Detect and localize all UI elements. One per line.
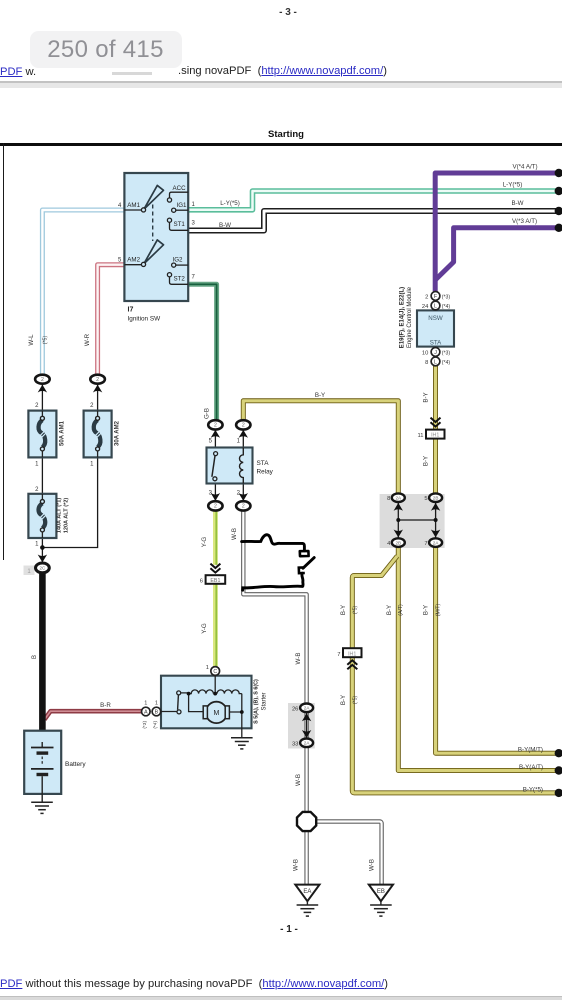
svg-text:(*5): (*5) bbox=[352, 606, 358, 615]
relay connector 2 top-right bbox=[239, 430, 248, 438]
svg-text:E19(F), E14(J), E22(L): E19(F), E14(J), E22(L) bbox=[400, 287, 406, 348]
svg-text:30A AM2: 30A AM2 bbox=[115, 420, 121, 446]
svg-text:B-Y: B-Y bbox=[315, 392, 325, 399]
connector 2A pin 8 bbox=[394, 503, 403, 511]
svg-text:2: 2 bbox=[35, 487, 39, 493]
STA relay bbox=[207, 448, 253, 484]
svg-text:3: 3 bbox=[209, 491, 213, 497]
svg-text:Starter: Starter bbox=[261, 692, 267, 710]
wire B-Y from STA relay to connector 2A bbox=[243, 401, 398, 494]
wire V(*3 A/T) purple bbox=[435, 228, 559, 280]
wire G-B from ST2 down to STA relay bbox=[189, 284, 217, 420]
wire V(*4 A/T) purple bbox=[435, 173, 559, 291]
terminal ST2 bbox=[170, 277, 189, 285]
svg-text:STA: STA bbox=[257, 460, 270, 467]
ground point EA bbox=[295, 885, 319, 902]
svg-text:M: M bbox=[213, 710, 219, 717]
svg-text:V(*3 A/T): V(*3 A/T) bbox=[512, 218, 537, 225]
svg-text:2: 2 bbox=[425, 294, 428, 300]
starter right bus and ground bbox=[230, 694, 242, 738]
starter terminal A bbox=[142, 707, 151, 716]
svg-text:W-L: W-L bbox=[28, 334, 35, 346]
svg-text:IG2: IG2 bbox=[173, 257, 184, 264]
svg-text:F: F bbox=[434, 294, 437, 300]
battery bbox=[24, 731, 61, 794]
svg-text:AM2: AM2 bbox=[127, 257, 140, 264]
ECM pin L bbox=[431, 301, 440, 310]
svg-text:B-Y: B-Y bbox=[340, 695, 347, 705]
svg-text:B-Y: B-Y bbox=[423, 605, 430, 615]
svg-text:B-Y: B-Y bbox=[386, 605, 393, 615]
wire W-B octagon to ground EA bbox=[304, 831, 308, 884]
wire B-Y from ECM STA pin down through IH1 bbox=[433, 366, 438, 494]
svg-text:EB1: EB1 bbox=[210, 578, 220, 584]
svg-text:L-Y(*5): L-Y(*5) bbox=[503, 181, 523, 188]
svg-text:V(*4 A/T): V(*4 A/T) bbox=[512, 164, 537, 171]
svg-text:50A AM1: 50A AM1 bbox=[60, 420, 66, 446]
svg-text:S 5(A), (B), S 6(C): S 5(A), (B), S 6(C) bbox=[254, 679, 260, 724]
connector block shade 2A/2B bbox=[380, 494, 445, 548]
svg-text:B-Y: B-Y bbox=[422, 392, 429, 402]
svg-text:1: 1 bbox=[144, 701, 147, 707]
wire Y-G relay to EB1 bbox=[213, 511, 218, 565]
svg-text:2: 2 bbox=[242, 504, 245, 510]
svg-text:2A: 2A bbox=[304, 706, 311, 711]
terminal ST1 bbox=[170, 222, 189, 230]
svg-text:B-Y(A/T): B-Y(A/T) bbox=[519, 764, 543, 771]
svg-text:I7: I7 bbox=[128, 307, 134, 314]
svg-text:2: 2 bbox=[96, 377, 99, 383]
svg-text:3: 3 bbox=[192, 221, 196, 227]
ECM pin F bbox=[431, 292, 440, 301]
svg-text:2: 2 bbox=[35, 403, 39, 409]
fuse 50A AM1 bbox=[28, 411, 56, 458]
svg-text:2A: 2A bbox=[433, 540, 440, 545]
svg-text:26: 26 bbox=[292, 706, 298, 712]
svg-text:Ignition SW: Ignition SW bbox=[128, 316, 162, 323]
svg-text:(A/T): (A/T) bbox=[398, 604, 404, 616]
starter motor M bbox=[206, 702, 227, 723]
svg-text:1: 1 bbox=[35, 542, 39, 548]
ground point EB bbox=[369, 885, 393, 902]
relay connector 2 bottom-right bbox=[239, 493, 248, 501]
junction IH1 pin 7 bbox=[343, 648, 362, 657]
link fuse AM2 to connector bbox=[97, 384, 99, 411]
ignition switch mechanical link dashed bbox=[152, 205, 154, 242]
svg-text:1: 1 bbox=[237, 439, 241, 445]
terminal AM2 bbox=[124, 264, 141, 266]
wire B battery cable bbox=[39, 574, 46, 743]
svg-text:1: 1 bbox=[35, 461, 39, 467]
svg-text:C: C bbox=[213, 669, 217, 675]
svg-text:ACC: ACC bbox=[173, 185, 187, 192]
svg-text:(*3): (*3) bbox=[442, 294, 451, 300]
svg-text:2A: 2A bbox=[304, 741, 311, 746]
junction IH1 pin 11 bbox=[431, 418, 441, 427]
link relay pin2 bbox=[242, 484, 244, 502]
svg-text:2: 2 bbox=[242, 423, 245, 429]
page indicator pill 250 of 415 bbox=[30, 31, 182, 68]
edge terminals bbox=[555, 169, 562, 177]
svg-text:(*5): (*5) bbox=[43, 336, 49, 345]
svg-text:ST2: ST2 bbox=[174, 276, 186, 283]
starter pull-in coil bbox=[189, 690, 214, 694]
ECM pin J bbox=[431, 348, 440, 357]
wire W-R from ignition AM2 to fuse connector bbox=[98, 265, 125, 376]
link relay pin5 bbox=[214, 430, 216, 448]
ECM pin L2 bbox=[431, 357, 440, 366]
connector 2C battery cable bbox=[38, 555, 47, 563]
fuse 140A/120A ALT bbox=[28, 494, 56, 538]
junction EB1 pin 6 bbox=[210, 564, 220, 573]
ignition switch I7 bbox=[124, 173, 188, 301]
svg-text:(*4): (*4) bbox=[442, 304, 451, 310]
svg-text:Y-G: Y-G bbox=[201, 537, 208, 548]
svg-text:AM1: AM1 bbox=[127, 202, 140, 209]
connector block 26/33 internal link bbox=[306, 712, 308, 739]
svg-text:B-Y(*5): B-Y(*5) bbox=[523, 786, 543, 793]
svg-text:2B: 2B bbox=[395, 540, 401, 545]
wire L-Y(*5) from IG1 to right edge bbox=[189, 191, 560, 210]
title Starting bbox=[250, 129, 322, 140]
starter S5/S6 bbox=[161, 676, 252, 729]
svg-text:8: 8 bbox=[387, 496, 390, 502]
svg-text:6: 6 bbox=[200, 579, 203, 585]
link relay pin3 bbox=[214, 484, 216, 502]
svg-text:L: L bbox=[434, 359, 437, 365]
junction node bbox=[40, 545, 45, 550]
relay connector 2 bottom-left bbox=[211, 493, 220, 501]
terminal AM1 bbox=[124, 209, 141, 211]
relay switch contact bbox=[214, 452, 218, 456]
starter switch contact bbox=[177, 691, 181, 695]
starter terminal B bbox=[152, 707, 161, 716]
svg-text:(*4): (*4) bbox=[442, 360, 451, 366]
novaPDF watermark top left fragment bbox=[0, 66, 36, 78]
svg-text:L-Y(*5): L-Y(*5) bbox=[220, 200, 240, 207]
page number top bbox=[270, 7, 306, 18]
wire B-Y(M/T) bottom run bbox=[436, 547, 560, 753]
svg-text:5: 5 bbox=[424, 496, 427, 502]
svg-text:120A ALT (*2): 120A ALT (*2) bbox=[64, 498, 70, 534]
relay connector 2 top-left bbox=[211, 430, 220, 438]
hand-drawn annotation scribble bbox=[242, 535, 305, 551]
ignition switch contact arm lower bbox=[144, 240, 164, 264]
svg-text:8: 8 bbox=[425, 360, 428, 366]
wire W-L from ignition AM1 to fuse connector bbox=[42, 210, 124, 375]
wire W-B octagon branch to ground EB bbox=[317, 822, 382, 885]
svg-text:Y-G: Y-G bbox=[201, 623, 208, 634]
svg-text:W-B: W-B bbox=[295, 653, 302, 665]
link fuse ALT to battery node bbox=[41, 538, 43, 563]
link fuse AM1 to fuse ALT bbox=[41, 456, 43, 494]
connector 2 (W-R) bbox=[93, 385, 102, 393]
svg-text:(*5): (*5) bbox=[352, 696, 358, 705]
svg-text:B: B bbox=[155, 709, 159, 715]
connector 2A pin 7 bbox=[431, 530, 440, 538]
starter terminal C bbox=[211, 667, 220, 676]
svg-text:B-R: B-R bbox=[100, 702, 111, 709]
starter internal wiring bbox=[214, 676, 216, 694]
svg-text:EB: EB bbox=[377, 889, 385, 895]
svg-text:Relay: Relay bbox=[257, 469, 274, 476]
svg-text:W-B: W-B bbox=[231, 528, 238, 540]
svg-text:G-B: G-B bbox=[203, 408, 210, 419]
svg-text:A: A bbox=[144, 709, 148, 715]
svg-text:B-W: B-W bbox=[511, 200, 523, 207]
svg-text:2: 2 bbox=[90, 403, 94, 409]
battery ground bbox=[31, 801, 53, 803]
svg-text:EA: EA bbox=[303, 889, 311, 895]
svg-text:L: L bbox=[434, 303, 437, 309]
svg-text:B-Y(M/T): B-Y(M/T) bbox=[518, 747, 543, 754]
svg-text:(M/T): (M/T) bbox=[435, 604, 441, 617]
svg-text:B-Y: B-Y bbox=[340, 605, 347, 615]
svg-text:W-B: W-B bbox=[369, 859, 376, 871]
title rule bbox=[0, 143, 562, 146]
svg-text:7: 7 bbox=[424, 541, 427, 547]
svg-text:2C: 2C bbox=[39, 566, 46, 571]
svg-text:J: J bbox=[434, 350, 437, 356]
svg-text:B-W: B-W bbox=[219, 222, 231, 229]
battery plates bbox=[41, 742, 43, 748]
connector 2A pin 26 bbox=[302, 713, 311, 721]
wire B-Y(A/T) bottom run bbox=[398, 547, 559, 771]
octagon splice joint bbox=[297, 812, 316, 831]
svg-text:Engine Control Module: Engine Control Module bbox=[407, 286, 413, 348]
svg-text:IG1: IG1 bbox=[177, 202, 188, 209]
svg-text:33: 33 bbox=[292, 741, 298, 747]
svg-text:11: 11 bbox=[417, 433, 423, 439]
connector 2 (W-L) bbox=[38, 385, 47, 393]
svg-text:(*3): (*3) bbox=[442, 350, 451, 356]
svg-text:B-Y: B-Y bbox=[422, 456, 429, 466]
svg-text:W-B: W-B bbox=[293, 859, 300, 871]
left page border bbox=[3, 143, 5, 560]
svg-text:W-R: W-R bbox=[84, 333, 91, 346]
terminal ACC bbox=[170, 192, 189, 198]
svg-text:10: 10 bbox=[422, 350, 428, 356]
svg-text:2B: 2B bbox=[433, 496, 439, 501]
wire W-B relay to body octagon joint bbox=[243, 511, 306, 812]
svg-text:B: B bbox=[32, 655, 38, 659]
svg-text:IH1: IH1 bbox=[431, 433, 439, 439]
wire B-W from ST1 to right edge bbox=[189, 211, 560, 231]
faded label near battery connector bbox=[24, 566, 35, 576]
connector 2B pin 4 bbox=[394, 530, 403, 538]
starter hold-in coil bbox=[217, 690, 242, 694]
novaPDF watermark bottom bbox=[0, 978, 388, 990]
svg-text:1: 1 bbox=[206, 665, 209, 671]
svg-text:STA: STA bbox=[430, 339, 442, 346]
toolbar divider bbox=[0, 81, 562, 83]
terminal IG2 bbox=[176, 264, 188, 266]
starter internal links bbox=[161, 693, 203, 712]
wire B-Y(*5) branch through IH1 to right edge bbox=[352, 556, 559, 793]
svg-text:2: 2 bbox=[237, 491, 241, 497]
svg-text:IH1: IH1 bbox=[348, 651, 356, 657]
wire Y-G EB1 to starter terminal C bbox=[213, 584, 218, 667]
terminal IG1 bbox=[176, 209, 188, 211]
svg-text:2A: 2A bbox=[395, 496, 402, 501]
svg-text:2: 2 bbox=[41, 377, 44, 383]
svg-text:NSW: NSW bbox=[428, 315, 443, 322]
svg-text:140A ALT (*1): 140A ALT (*1) bbox=[57, 498, 63, 534]
svg-text:7: 7 bbox=[337, 652, 340, 658]
page number bottom bbox=[276, 924, 302, 935]
link relay pin1 bbox=[242, 430, 244, 448]
connector block internal links bbox=[398, 502, 435, 538]
svg-text:1: 1 bbox=[155, 701, 158, 707]
svg-text:(*4): (*4) bbox=[152, 721, 158, 729]
svg-text:Battery: Battery bbox=[65, 761, 86, 768]
link fuse AM2 to battery node bbox=[43, 456, 98, 548]
svg-text:2: 2 bbox=[214, 423, 217, 429]
bottom edge band bbox=[0, 996, 562, 1000]
svg-text:W-B: W-B bbox=[295, 774, 302, 786]
novaPDF watermark top right fragment bbox=[178, 65, 387, 77]
connector block shade 2A (26/33) bbox=[288, 703, 315, 749]
ignition switch contact arm upper bbox=[144, 185, 164, 209]
svg-text:24: 24 bbox=[422, 304, 429, 310]
link fuse AM1 to connector bbox=[41, 384, 43, 411]
svg-text:(*3): (*3) bbox=[142, 721, 148, 729]
relay coil bbox=[240, 448, 244, 484]
svg-text:2: 2 bbox=[214, 504, 217, 510]
connector 2A pin 33 bbox=[302, 730, 311, 738]
obscured text remnant bbox=[112, 72, 152, 75]
svg-text:1: 1 bbox=[90, 461, 94, 467]
svg-text:7: 7 bbox=[192, 275, 196, 281]
svg-text:5: 5 bbox=[209, 439, 213, 445]
connector 2B pin 5 bbox=[431, 503, 440, 511]
engine control module E19/E14/E22 bbox=[417, 310, 454, 346]
svg-text:ST1: ST1 bbox=[174, 221, 186, 228]
wire B-R battery to starter bbox=[45, 711, 142, 719]
fuse 30A AM2 bbox=[84, 411, 112, 458]
